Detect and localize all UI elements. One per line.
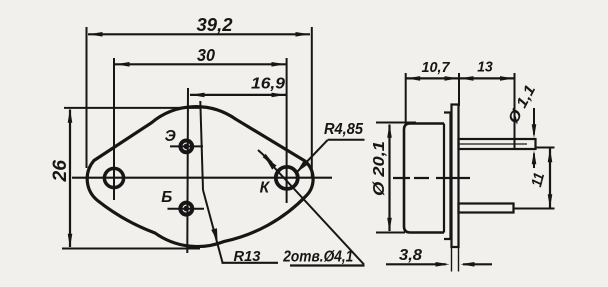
dimension Ø20,1 bottom arrow xyxy=(387,218,392,232)
dimension 16,9 left arrow xyxy=(191,93,205,98)
vertical centerline of flange xyxy=(200,101,203,190)
can body (side view) xyxy=(404,124,444,233)
svg-text:26: 26 xyxy=(50,160,71,183)
leader R4,85 line xyxy=(298,140,328,172)
svg-text:К: К xyxy=(260,179,271,196)
top lead inner line xyxy=(459,143,528,145)
svg-text:Ø 20,1: Ø 20,1 xyxy=(371,141,388,196)
dimension 3,8 left line xyxy=(386,263,446,265)
base pin horizontal tick xyxy=(168,208,205,210)
dimension 30 left extension line xyxy=(113,58,115,66)
dimension 26 line xyxy=(69,110,71,248)
svg-text:13: 13 xyxy=(477,60,493,76)
dimension 11 bottom arrow xyxy=(548,194,553,208)
pin-axis vertical line (extension for 16,9) xyxy=(186,88,189,253)
base pin (Б) xyxy=(180,203,192,215)
side view horizontal centerline xyxy=(393,177,470,179)
svg-text:16,9: 16,9 xyxy=(251,76,285,93)
emitter pin horizontal tick xyxy=(170,145,203,147)
К case arrowhead xyxy=(263,154,275,165)
right mounting hole (collector K) xyxy=(276,167,298,189)
dimension 39,2 right extension line xyxy=(311,27,313,178)
dimension Ø1,1 lower arrow xyxy=(532,150,537,164)
К case arrow xyxy=(258,150,272,163)
dimension 11 top extension line xyxy=(536,147,555,149)
dimension 13 left arrow xyxy=(460,76,474,81)
svg-text:R13: R13 xyxy=(234,248,262,265)
flange plate extension tails xyxy=(452,247,459,272)
top lead (emitter) xyxy=(459,139,536,149)
dimension 39,2 left arrow xyxy=(89,32,103,37)
dimension 26 bottom arrow xyxy=(68,234,73,248)
dimension 26 top extension line xyxy=(64,107,200,109)
dimension 3,8 right line xyxy=(463,263,492,265)
dimension 30 right arrow xyxy=(272,62,286,67)
leader R13 line xyxy=(203,190,223,263)
leader 2отв.Ø4,1 arrow xyxy=(266,158,277,170)
dimension Ø20,1 line xyxy=(388,125,390,232)
svg-text:Э: Э xyxy=(165,128,176,145)
dimension 39,2 right arrow xyxy=(296,32,310,37)
dimension 26 bottom extension line xyxy=(62,248,200,250)
dimension 13 right arrow xyxy=(500,76,514,81)
dimension 39,2 line xyxy=(88,33,310,35)
dimension 13 right extension line xyxy=(514,73,516,150)
left mounting hole vertical centerline xyxy=(113,58,115,200)
leader R13 arrow xyxy=(211,228,217,241)
dimension Ø1,1 upper arrow xyxy=(532,124,537,138)
dimension 11 bottom extension line xyxy=(514,208,555,210)
leader 2отв.Ø4,1 shelf xyxy=(290,264,365,266)
dimension 30 line xyxy=(115,63,286,65)
leader R4,85 shelf xyxy=(328,139,365,141)
svg-text:30: 30 xyxy=(197,45,215,65)
flange outline (rounded diamond, front view) xyxy=(87,107,313,247)
dimension 10,7/13 line xyxy=(406,77,515,79)
svg-text:R4,85: R4,85 xyxy=(324,121,363,138)
leader 2отв.Ø4,1 line xyxy=(266,158,365,265)
dimension Ø1,1 lower leader xyxy=(533,154,535,169)
dimension 30 left arrow xyxy=(116,62,130,67)
svg-text:2отв.Ø4,1: 2отв.Ø4,1 xyxy=(282,249,353,266)
dimension Ø20,1 top extension line xyxy=(376,122,416,124)
horizontal centerline through mounting holes xyxy=(72,177,332,179)
leader R13 shelf xyxy=(222,262,279,264)
svg-text:39,2: 39,2 xyxy=(197,15,233,35)
dimension 16,9 right arrow xyxy=(272,93,286,98)
dimension Ø1,1 upper leader xyxy=(533,108,535,135)
dimension 11 line xyxy=(549,149,551,209)
K hole vertical centerline (extension for 30 and 16,9) xyxy=(286,58,288,203)
leader R4,85 arrow xyxy=(297,161,308,172)
dimension Ø20,1 top arrow xyxy=(387,124,392,138)
flange rim step xyxy=(444,113,451,240)
flange face extension line xyxy=(458,73,460,106)
svg-text:3,8: 3,8 xyxy=(399,247,422,264)
dimension 10,7 right arrow xyxy=(445,76,459,81)
emitter pin (Э) xyxy=(180,141,192,153)
bottom lead (base) xyxy=(459,204,514,213)
dimension 11 top arrow xyxy=(548,148,553,162)
dimension 39,2 left extension line xyxy=(86,27,88,168)
left mounting hole xyxy=(104,168,123,187)
dimension 3,8 right arrow xyxy=(461,262,475,267)
dimension 10,7 left extension line xyxy=(405,73,407,124)
can right edge line xyxy=(443,124,445,233)
dimension 10,7 left arrow xyxy=(406,76,420,81)
flange plate (edge view) xyxy=(452,105,459,248)
dimension Ø20,1 bottom extension line xyxy=(376,232,405,234)
dimension 3,8 left arrow xyxy=(436,262,450,267)
dimension 26 top arrow xyxy=(68,109,73,123)
svg-text:Б: Б xyxy=(161,189,172,206)
dimension 16,9 line xyxy=(190,94,286,96)
svg-text:10,7: 10,7 xyxy=(422,59,451,76)
